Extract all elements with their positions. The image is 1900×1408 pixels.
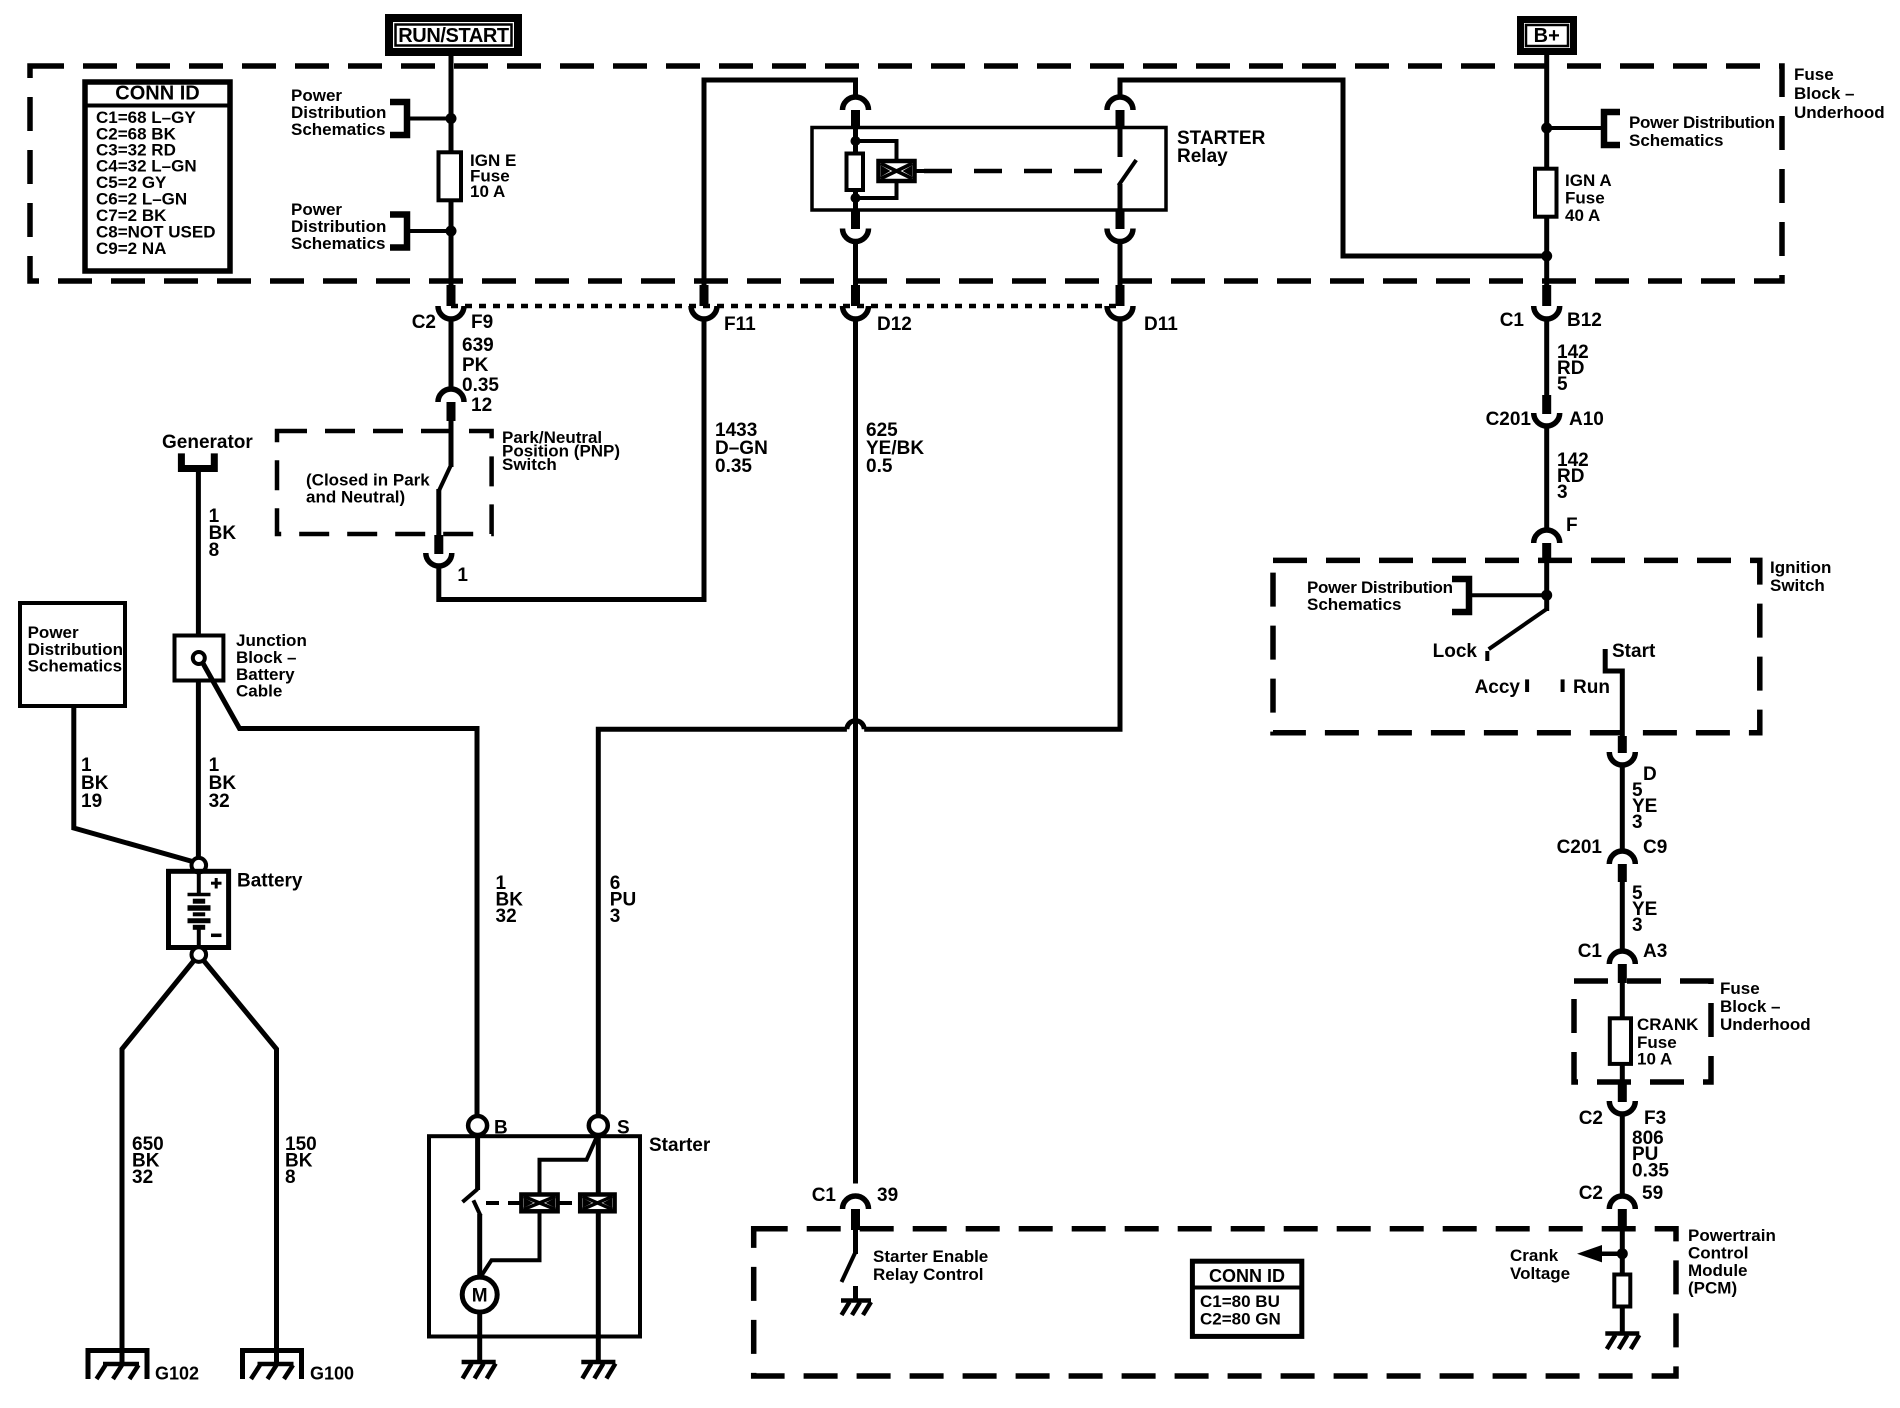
wire resistor to ground xyxy=(1620,1307,1625,1333)
wire 5 YE 3 (upper) xyxy=(1620,765,1625,852)
connector C2/59 xyxy=(1609,1196,1635,1209)
wire relay coil to D12 xyxy=(853,241,858,287)
svg-text:CRANK: CRANK xyxy=(1637,1015,1699,1034)
svg-text:59: 59 xyxy=(1642,1183,1663,1204)
connector F (ignition switch) xyxy=(1534,530,1560,543)
svg-text:D11: D11 xyxy=(1144,314,1178,335)
generator terminal xyxy=(181,453,214,468)
svg-text:32: 32 xyxy=(132,1167,153,1188)
svg-text:Generator: Generator xyxy=(162,432,253,453)
svg-text:B: B xyxy=(494,1118,508,1139)
hold-in winding wire xyxy=(596,1136,601,1195)
svg-text:C201: C201 xyxy=(1486,409,1532,430)
svg-text:C9: C9 xyxy=(1643,837,1667,858)
bracket: power distribution schematics (ignition) xyxy=(1452,579,1469,612)
svg-text:Powertrain: Powertrain xyxy=(1688,1226,1776,1245)
battery positive terminal xyxy=(192,858,207,873)
svg-text:0.35: 0.35 xyxy=(715,456,752,477)
svg-text:C9=2 NA: C9=2 NA xyxy=(96,239,166,258)
svg-text:Schematics: Schematics xyxy=(28,657,123,676)
battery negative terminal xyxy=(192,947,207,962)
wire junction block to starter B feed xyxy=(203,663,478,1116)
relay winding branch wire xyxy=(856,141,897,161)
node junction dot IGN A output xyxy=(1541,251,1552,262)
wire IGN A fuse output xyxy=(1544,217,1549,287)
ground (starter motor) xyxy=(462,1362,496,1379)
wire bracket to RUN/START feed xyxy=(407,117,451,121)
svg-text:Control: Control xyxy=(1688,1244,1748,1263)
starter enable relay control switch xyxy=(853,1230,858,1254)
wire winding 1 to motor xyxy=(480,1211,540,1278)
motor M xyxy=(462,1277,497,1312)
wire F11 up and over to relay coil xyxy=(704,80,856,287)
wire junction block to battery (1 BK 32) xyxy=(196,681,201,858)
wire 806 PU 0.35 xyxy=(1620,1114,1625,1197)
wire hop over 625 circuit xyxy=(847,721,864,730)
label: (Closed in Park and Neutral) xyxy=(306,471,430,507)
node B+ (battery feed box) xyxy=(1521,20,1574,52)
fuse IGN A 40A xyxy=(1535,169,1557,217)
label: Power Distribution Schematics (B+) xyxy=(1629,113,1775,150)
ground G100 xyxy=(243,1351,355,1384)
svg-text:3: 3 xyxy=(610,906,621,927)
ignition switch wiper blade xyxy=(1489,609,1547,649)
label: Ignition Switch xyxy=(1770,558,1831,595)
svg-text:and Neutral): and Neutral) xyxy=(306,488,405,507)
connector C201/C9 xyxy=(1609,851,1635,864)
ground (starter solenoid) xyxy=(581,1362,615,1379)
relay coil leg xyxy=(853,128,858,211)
connector relay coil bottom xyxy=(851,210,860,229)
wire 142 RD 5 xyxy=(1544,319,1549,396)
solenoid winding 2 xyxy=(580,1195,614,1212)
svg-text:Fuse: Fuse xyxy=(1794,65,1834,84)
connector PNP pin 12 xyxy=(438,389,464,402)
connector D (ignition output) xyxy=(1618,736,1627,753)
svg-text:PK: PK xyxy=(462,355,489,376)
connector relay coil top xyxy=(843,97,869,110)
wire IGN E fuse to fuse block edge xyxy=(449,200,454,287)
svg-text:Battery: Battery xyxy=(237,871,303,892)
connector C1/B12 xyxy=(1542,285,1551,306)
connector D11 xyxy=(1116,285,1125,306)
svg-text:C1: C1 xyxy=(1578,941,1603,962)
label: Starter Enable Relay Control xyxy=(873,1247,988,1284)
connector C201/A10 xyxy=(1542,395,1551,414)
svg-text:Module: Module xyxy=(1688,1261,1748,1280)
svg-text:(PCM): (PCM) xyxy=(1688,1279,1737,1298)
wire battery negative to G102 xyxy=(122,961,194,1363)
wire relay contact to D11 xyxy=(1118,241,1123,287)
svg-text:F3: F3 xyxy=(1644,1108,1666,1129)
wire relay contact feed from IGN A xyxy=(1120,80,1547,256)
svg-text:32: 32 xyxy=(209,791,230,812)
svg-text:Accy: Accy xyxy=(1475,677,1521,698)
relay actuator dashed link xyxy=(915,169,925,173)
svg-text:Lock: Lock xyxy=(1433,641,1478,662)
svg-text:3: 3 xyxy=(1557,482,1568,503)
svg-text:8: 8 xyxy=(285,1167,296,1188)
dotted connector line C2 xyxy=(451,304,1120,309)
wire 625 YE/BK down to PCM xyxy=(853,319,858,1184)
fuse IGN E 10A xyxy=(439,152,462,200)
svg-text:IGN A: IGN A xyxy=(1565,171,1612,190)
label: circuit 639 PK 0.35 12 xyxy=(462,335,499,416)
terminal S xyxy=(589,1116,608,1135)
svg-text:19: 19 xyxy=(81,791,102,812)
node junction dot crank voltage xyxy=(1617,1248,1628,1259)
wire into crank fuse xyxy=(1620,983,1625,1018)
starter actuator dashed link xyxy=(486,1201,521,1205)
wire D11 down and over to starter S xyxy=(864,319,1120,730)
svg-text:639: 639 xyxy=(462,335,494,356)
label: Fuse Block - Underhood (crank) xyxy=(1720,979,1811,1034)
label: Powertrain Control Module (PCM) xyxy=(1688,1226,1776,1298)
svg-text:D: D xyxy=(1643,764,1657,785)
svg-text:F11: F11 xyxy=(724,314,756,335)
ground G102 xyxy=(88,1351,199,1384)
svg-text:Relay Control: Relay Control xyxy=(873,1265,984,1284)
svg-text:A10: A10 xyxy=(1569,409,1604,430)
connector C2/F3 xyxy=(1618,1083,1627,1102)
wire 5 YE 3 (lower) xyxy=(1620,882,1625,951)
connector C2/F9 xyxy=(447,285,456,306)
contact Run xyxy=(1561,679,1565,692)
wire bracket to ignition feed xyxy=(1469,593,1547,597)
svg-text:CONN ID: CONN ID xyxy=(1209,1266,1285,1286)
starter main contact xyxy=(475,1136,480,1191)
svg-text:C1: C1 xyxy=(812,1185,837,1206)
arrow crank voltage xyxy=(1599,1251,1622,1256)
svg-text:Cable: Cable xyxy=(236,682,282,701)
svg-text:D12: D12 xyxy=(877,314,912,335)
ignition switch dashed box xyxy=(1273,560,1760,732)
svg-text:Crank: Crank xyxy=(1510,1246,1559,1265)
label: Fuse Block - Underhood (top right) xyxy=(1794,65,1885,122)
svg-text:Starter Enable: Starter Enable xyxy=(873,1247,988,1266)
bracket: power distribution schematics (upper) xyxy=(390,102,407,135)
node junction dot ignition xyxy=(1541,590,1552,601)
svg-text:B12: B12 xyxy=(1567,310,1602,331)
wire 142 RD 3 xyxy=(1544,426,1549,531)
wire battery negative to G100 xyxy=(204,961,277,1363)
wire bracket to B+ feed xyxy=(1547,126,1604,130)
svg-text:Starter: Starter xyxy=(649,1135,711,1156)
node junction dot upper xyxy=(446,113,457,124)
svg-text:Block –: Block – xyxy=(1720,997,1780,1016)
connector F11 xyxy=(700,285,709,306)
wire 639 PK xyxy=(449,319,454,391)
fuse block underhood (top) dashed box xyxy=(30,66,1782,281)
svg-text:3: 3 xyxy=(1632,915,1643,936)
svg-text:32: 32 xyxy=(496,906,517,927)
resistor (relay coil suppression) xyxy=(847,154,864,191)
svg-text:Run: Run xyxy=(1573,677,1610,698)
svg-text:C2: C2 xyxy=(1579,1108,1603,1129)
terminal B xyxy=(468,1116,487,1135)
ground (starter enable) xyxy=(841,1301,871,1316)
svg-text:Switch: Switch xyxy=(502,455,557,474)
powertrain control module dashed box xyxy=(754,1229,1676,1376)
svg-text:Underhood: Underhood xyxy=(1720,1015,1811,1034)
wire bracket to IGN E feed xyxy=(407,229,451,233)
connector PNP pin 1 xyxy=(434,535,443,554)
svg-text:C2=80 GN: C2=80 GN xyxy=(1200,1310,1281,1329)
svg-text:C1: C1 xyxy=(1500,310,1525,331)
svg-text:40 A: 40 A xyxy=(1565,206,1600,225)
svg-text:3: 3 xyxy=(1632,812,1643,833)
starter relay box xyxy=(812,128,1166,211)
svg-text:Switch: Switch xyxy=(1770,576,1825,595)
relay solenoid winding symbol xyxy=(879,161,915,181)
fuse block underhood (crank) dashed box xyxy=(1574,981,1711,1082)
connector C1/39 xyxy=(843,1196,869,1209)
wire winding 2 to starter ground xyxy=(596,1211,601,1361)
node junction dot B+ xyxy=(1541,123,1552,134)
starter solenoid pull-in winding branch xyxy=(540,1138,597,1195)
CONN ID table (PCM) xyxy=(1192,1261,1301,1336)
svg-text:39: 39 xyxy=(877,1185,898,1206)
bracket: power distribution schematics (lower) xyxy=(390,215,407,248)
contact Start and wire out xyxy=(1605,649,1622,736)
wire B+ to IGN A fuse xyxy=(1544,55,1549,169)
park/neutral position switch contact xyxy=(449,421,454,467)
ground (PCM internal) xyxy=(1605,1334,1639,1350)
wire ignition feed xyxy=(1544,561,1549,611)
CONN ID table (fuse block underhood) xyxy=(85,82,230,271)
label: Power Distribution Schematics (ignition) xyxy=(1307,578,1453,614)
bracket: power distribution schematics (B+) xyxy=(1604,112,1620,145)
svg-text:Power Distribution: Power Distribution xyxy=(1629,113,1775,132)
label: Park/Neutral Position (PNP) Switch xyxy=(502,428,620,474)
label: circuit 1 BK 32 (starter B) xyxy=(496,873,524,927)
svg-text:A3: A3 xyxy=(1643,941,1667,962)
svg-text:10 A: 10 A xyxy=(1637,1050,1672,1069)
label: circuit 6 PU 3 (starter S) xyxy=(610,873,636,927)
wire RUN/START down to IGN E fuse xyxy=(449,56,454,152)
svg-text:1: 1 xyxy=(457,565,468,586)
svg-text:C2: C2 xyxy=(1579,1183,1603,1204)
svg-text:Ignition: Ignition xyxy=(1770,558,1831,577)
node junction block terminal xyxy=(193,652,205,664)
svg-text:Schematics: Schematics xyxy=(1629,131,1724,150)
svg-text:Fuse: Fuse xyxy=(1720,979,1760,998)
svg-text:G100: G100 xyxy=(310,1364,354,1384)
connector D12 xyxy=(851,285,860,306)
svg-text:RUN/START: RUN/START xyxy=(398,25,509,47)
power distribution schematics box (left) xyxy=(20,603,125,706)
fuse CRANK 10A xyxy=(1610,1018,1631,1064)
resistor (PCM pull-up) xyxy=(1614,1275,1630,1307)
label: circuit 1433 D-GN 0.35 xyxy=(715,420,768,477)
svg-text:0.35: 0.35 xyxy=(1632,1161,1669,1182)
svg-text:0.35: 0.35 xyxy=(462,375,499,396)
svg-text:S: S xyxy=(617,1118,630,1139)
svg-text:Schematics: Schematics xyxy=(1307,595,1402,614)
connector C1/A3 xyxy=(1609,951,1635,964)
battery xyxy=(169,871,303,948)
svg-text:Relay: Relay xyxy=(1177,146,1228,167)
svg-text:Start: Start xyxy=(1612,641,1656,662)
svg-text:Schematics: Schematics xyxy=(291,120,386,139)
svg-text:8: 8 xyxy=(209,540,220,561)
wire motor to ground xyxy=(477,1312,482,1361)
svg-text:Schematics: Schematics xyxy=(291,234,386,253)
wire generator to junction block (1 BK 8) xyxy=(196,469,201,636)
wire crank fuse output xyxy=(1620,1064,1625,1083)
svg-text:M: M xyxy=(472,1286,488,1307)
Park/Neutral Position switch dashed box xyxy=(277,431,492,534)
label: Crank Voltage xyxy=(1510,1246,1570,1283)
label: circuit 625 YE/BK 0.5 xyxy=(866,420,924,477)
connector relay contact bottom xyxy=(1116,210,1125,229)
svg-text:Block –: Block – xyxy=(1794,84,1854,103)
svg-text:0.5: 0.5 xyxy=(866,456,893,477)
svg-text:G102: G102 xyxy=(155,1364,199,1384)
label: Power Distribution Schematics (lower) xyxy=(291,200,386,253)
svg-text:12: 12 xyxy=(471,395,492,416)
svg-text:F9: F9 xyxy=(471,312,493,333)
svg-text:F: F xyxy=(1566,515,1578,536)
wire PDS box to battery (1 BK 19) xyxy=(74,706,193,862)
node RUN/START (power feed box) xyxy=(389,18,518,52)
label: Power Distribution Schematics (upper) xyxy=(291,86,386,139)
svg-text:5: 5 xyxy=(1557,374,1568,395)
contact Lock xyxy=(1485,651,1489,661)
label: STARTER Relay xyxy=(1177,128,1266,167)
relay contact switch xyxy=(1118,128,1123,158)
svg-text:C2: C2 xyxy=(412,312,436,333)
svg-text:Underhood: Underhood xyxy=(1794,103,1885,122)
svg-text:CONN ID: CONN ID xyxy=(115,83,199,105)
wire crank voltage input xyxy=(1620,1230,1625,1275)
svg-text:10 A: 10 A xyxy=(470,182,505,201)
svg-text:Voltage: Voltage xyxy=(1510,1264,1570,1283)
connector relay contact top xyxy=(1107,97,1133,110)
svg-text:C1=80 BU: C1=80 BU xyxy=(1200,1292,1280,1311)
solenoid winding 1 xyxy=(521,1195,557,1212)
wire PNP output to F11 xyxy=(439,319,704,600)
starter box xyxy=(429,1136,640,1336)
junction block - battery cable xyxy=(175,636,224,681)
wire continues to starter S terminal xyxy=(598,729,847,1115)
svg-text:B+: B+ xyxy=(1534,25,1560,47)
svg-text:Fuse: Fuse xyxy=(1565,189,1605,208)
node junction dot lower xyxy=(446,226,457,237)
svg-text:C201: C201 xyxy=(1557,837,1603,858)
contact Accy xyxy=(1525,679,1529,692)
